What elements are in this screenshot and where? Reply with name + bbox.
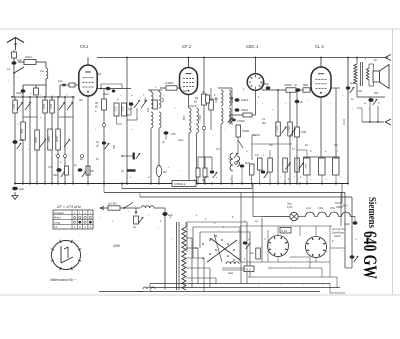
svg-text:µF: µF	[133, 225, 136, 229]
svg-text:stand: stand	[334, 234, 341, 238]
svg-text:0,25: 0,25	[42, 103, 46, 109]
svg-text:1MΩ: 1MΩ	[53, 175, 58, 177]
svg-text:MΩ: MΩ	[205, 176, 209, 179]
svg-text:79.2: 79.2	[245, 268, 251, 272]
svg-text:Netz: Netz	[228, 271, 234, 275]
svg-text:kΩ: kΩ	[194, 99, 197, 103]
svg-text:40µF: 40µF	[103, 93, 109, 96]
svg-text:CK1: CK1	[80, 44, 89, 49]
svg-text:TA: TA	[54, 225, 57, 229]
svg-text:20kΩ: 20kΩ	[306, 163, 308, 169]
svg-text:100µ: 100µ	[178, 139, 184, 142]
svg-text:0,55: 0,55	[49, 103, 53, 109]
svg-text:42W: 42W	[113, 244, 121, 248]
svg-text:4µF: 4µF	[128, 107, 133, 111]
svg-text:Widerstand für ~: Widerstand für ~	[50, 278, 76, 282]
svg-text:0,1MΩ: 0,1MΩ	[277, 125, 279, 132]
svg-text:Siemens: Siemens	[366, 197, 377, 228]
svg-text:MΩ: MΩ	[262, 122, 266, 125]
svg-text:450µF: 450µF	[241, 108, 249, 112]
svg-text:7500: 7500	[198, 115, 202, 121]
svg-text:LA: LA	[7, 67, 10, 71]
svg-text:400µF: 400µF	[241, 98, 249, 102]
svg-text:10µF: 10µF	[96, 73, 102, 76]
svg-text:CK1: CK1	[330, 206, 336, 210]
svg-text:Wie2: Wie2	[25, 55, 32, 59]
svg-text:0,020: 0,020	[215, 96, 218, 103]
svg-text:5000: 5000	[55, 136, 59, 142]
svg-text:110-240: 110-240	[108, 203, 117, 206]
svg-text:1µF: 1µF	[17, 58, 22, 62]
svg-text:CF3: CF3	[318, 206, 323, 210]
svg-text:M2: M2	[163, 171, 167, 174]
svg-text:0,10: 0,10	[123, 106, 125, 111]
svg-text:6,3V: 6,3V	[287, 205, 293, 209]
svg-text:4,5: 4,5	[48, 165, 52, 169]
svg-text:m: m	[131, 129, 133, 131]
svg-text:0,5MΩ: 0,5MΩ	[165, 81, 173, 85]
svg-text:202: 202	[374, 92, 379, 95]
svg-text:30µF: 30µF	[16, 91, 22, 95]
svg-text:203: 203	[358, 90, 363, 93]
svg-text:Schalter: Schalter	[54, 211, 64, 215]
svg-text:CF 2: CF 2	[182, 44, 192, 49]
svg-text:600: 600	[143, 97, 147, 102]
svg-text:0,5MΩ 2: 0,5MΩ 2	[174, 182, 186, 186]
svg-text:10µF: 10µF	[344, 222, 350, 226]
svg-text:µF: µF	[300, 101, 303, 104]
svg-text:0,5MΩ: 0,5MΩ	[237, 119, 245, 123]
svg-text:Lang: Lang	[54, 220, 60, 224]
svg-text:0MΩ: 0MΩ	[303, 84, 308, 87]
svg-text:13µ: 13µ	[58, 79, 63, 83]
svg-text:2852: 2852	[47, 136, 51, 142]
svg-text:0,3MΩ: 0,3MΩ	[289, 125, 291, 132]
svg-text:CL4: CL4	[306, 206, 311, 210]
svg-text:kΩ: kΩ	[95, 104, 98, 108]
svg-text:CL 4: CL 4	[315, 44, 324, 49]
svg-text:Som=4,7Ω: Som=4,7Ω	[332, 227, 344, 231]
svg-text:640 GW: 640 GW	[359, 231, 380, 279]
svg-text:CBC 1: CBC 1	[246, 44, 259, 49]
svg-text:Spr=Wider-: Spr=Wider-	[332, 231, 345, 235]
svg-text:0,10: 0,10	[116, 106, 118, 111]
svg-text:Ca: Ca	[40, 69, 44, 73]
svg-text:CBC1: CBC1	[336, 206, 343, 209]
svg-text:µ40: µ40	[19, 138, 24, 142]
svg-text:Mittel: Mittel	[54, 216, 61, 220]
svg-text:5853: 5853	[34, 137, 38, 143]
svg-text:z: z	[330, 103, 331, 105]
svg-text:1MΩ: 1MΩ	[301, 131, 306, 134]
svg-text:88µF: 88µF	[263, 82, 269, 86]
svg-text:µΩ: µΩ	[250, 251, 253, 255]
svg-text:0,16: 0,16	[342, 119, 346, 125]
svg-text:N: N	[202, 90, 204, 94]
svg-text:500: 500	[20, 128, 24, 133]
svg-text:150: 150	[171, 132, 176, 136]
svg-text:3M: 3M	[79, 99, 82, 102]
svg-text:3µF: 3µF	[19, 187, 24, 191]
svg-text:535: 535	[113, 144, 116, 149]
svg-text:600: 600	[183, 90, 188, 93]
svg-text:0,5MΩ: 0,5MΩ	[284, 83, 292, 87]
svg-text:600: 600	[182, 115, 186, 120]
svg-text:6,3V: 6,3V	[282, 229, 288, 233]
svg-text:ZF = 473 kHz: ZF = 473 kHz	[56, 204, 81, 209]
svg-text:Ska: Ska	[287, 202, 292, 206]
svg-text:600: 600	[161, 97, 165, 102]
svg-text:0,20: 0,20	[12, 103, 16, 109]
